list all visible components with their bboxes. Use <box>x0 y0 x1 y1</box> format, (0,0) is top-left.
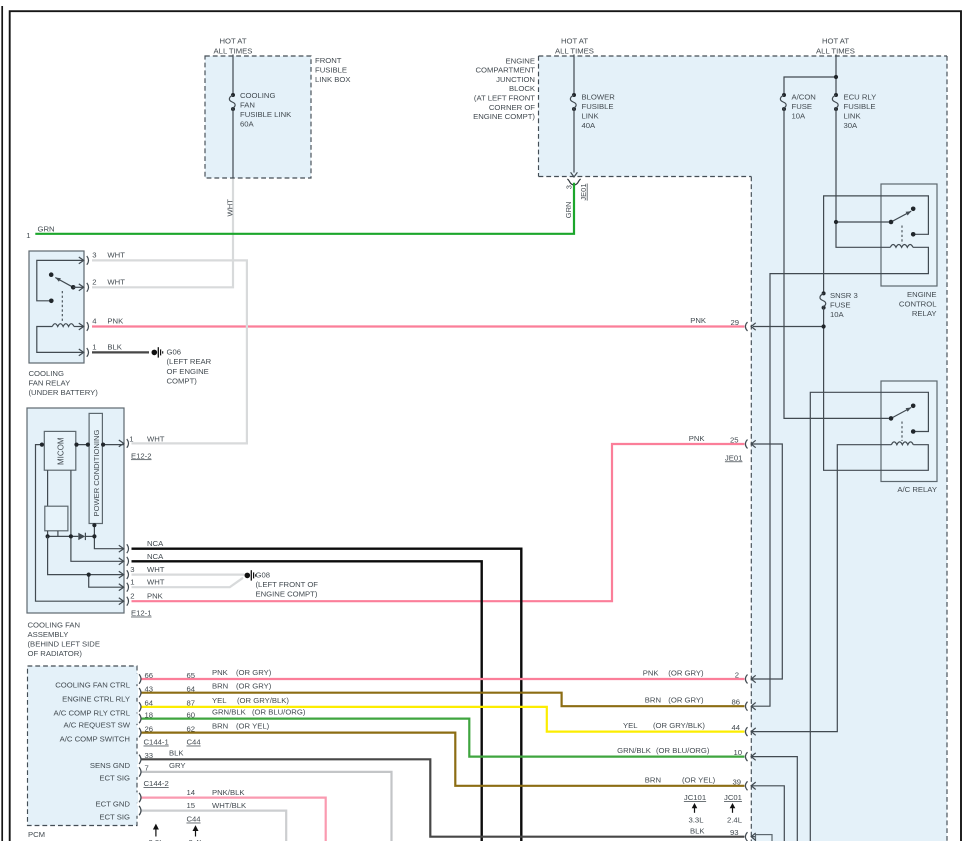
svg-text:COOLING FAN: COOLING FAN <box>28 621 81 630</box>
svg-text:25: 25 <box>730 436 739 445</box>
svg-text:WHT: WHT <box>107 278 125 287</box>
svg-text:ASSEMBLY: ASSEMBLY <box>28 630 69 639</box>
fan module box <box>45 506 68 531</box>
svg-text:OF RADIATOR): OF RADIATOR) <box>28 649 83 658</box>
svg-text:FUSIBLE LINK: FUSIBLE LINK <box>240 110 292 119</box>
svg-text:JC101: JC101 <box>684 793 706 802</box>
svg-text:HOT AT: HOT AT <box>822 37 849 46</box>
cooling fan relay coil leads <box>37 327 84 353</box>
svg-text:(OR GRY/BLK): (OR GRY/BLK) <box>237 696 289 705</box>
svg-text:BLK: BLK <box>690 827 705 836</box>
svg-text:PNK: PNK <box>690 316 707 325</box>
svg-text:JE01: JE01 <box>579 183 588 200</box>
ECR NC contact <box>911 232 916 237</box>
svg-text:A/CON: A/CON <box>792 93 816 102</box>
svg-text:3: 3 <box>130 565 134 574</box>
svg-text:LINK: LINK <box>844 112 862 121</box>
wire pin39 internal <box>751 786 784 841</box>
svg-text:FAN RELAY: FAN RELAY <box>29 379 71 388</box>
svg-text:65: 65 <box>187 671 196 680</box>
svg-text:LINK BOX: LINK BOX <box>315 75 350 84</box>
svg-text:BLK: BLK <box>169 748 184 757</box>
wire cooling fan fusible link lower (in box) <box>232 109 234 178</box>
svg-text:PNK/BLK: PNK/BLK <box>212 788 245 797</box>
svg-text:A/C RELAY: A/C RELAY <box>897 485 937 494</box>
junction block pin 25 <box>745 440 747 449</box>
svg-text:ENGINE COMPT): ENGINE COMPT) <box>473 112 535 121</box>
svg-text:62: 62 <box>187 724 196 733</box>
junction box bottom component <box>756 835 773 841</box>
svg-text:SENS GND: SENS GND <box>90 761 131 770</box>
svg-text:29: 29 <box>730 318 739 327</box>
svg-text:(UNDER BATTERY): (UNDER BATTERY) <box>29 388 99 397</box>
svg-text:7: 7 <box>145 764 149 773</box>
svg-text:COOLING: COOLING <box>240 91 275 100</box>
wire WHT/BLK ect sig <box>141 811 287 841</box>
fan assembly pin at y=601.2 <box>119 598 124 605</box>
svg-text:POWER CONDITIONING: POWER CONDITIONING <box>92 430 101 517</box>
svg-text:10A: 10A <box>830 310 845 319</box>
junction block pin 93 <box>745 832 747 841</box>
svg-text:BRN: BRN <box>645 775 661 784</box>
svg-text:FUSIBLE: FUSIBLE <box>582 102 614 111</box>
svg-text:43: 43 <box>145 685 154 694</box>
svg-text:87: 87 <box>187 699 196 708</box>
svg-text:93: 93 <box>730 828 739 837</box>
svg-text:WHT: WHT <box>147 565 165 574</box>
svg-text:ENGINE: ENGINE <box>907 290 936 299</box>
svg-text:E12-2: E12-2 <box>131 451 152 460</box>
page border outer line <box>1 6 3 841</box>
svg-text:CONTROL: CONTROL <box>899 300 937 309</box>
svg-text:OF ENGINE: OF ENGINE <box>167 367 209 376</box>
svg-text:GRY: GRY <box>169 761 186 770</box>
svg-text:3: 3 <box>565 185 574 189</box>
cooling fan relay pin at y=287.3 <box>79 284 84 291</box>
wire BLK relay pin1 to G06 <box>92 351 149 353</box>
wire NCA 2 <box>132 561 482 841</box>
svg-text:YEL: YEL <box>623 721 638 730</box>
node MICOM out <box>74 443 78 447</box>
ACR coil <box>891 442 913 445</box>
svg-text:RELAY: RELAY <box>912 309 937 318</box>
ECR NC loop wire <box>824 196 929 294</box>
svg-text:10A: 10A <box>792 112 807 121</box>
svg-text:A/C COMP RLY CTRL: A/C COMP RLY CTRL <box>54 709 131 718</box>
cooling fan fusible link 60A <box>231 93 235 97</box>
svg-text:15: 15 <box>187 801 196 810</box>
svg-text:HOT AT: HOT AT <box>219 37 246 46</box>
svg-text:COOLING: COOLING <box>29 369 64 378</box>
wire YEL a/c comp rly ctrl <box>141 707 745 732</box>
junction block pin 86 <box>745 702 747 711</box>
fan assembly pin at y=561.3 <box>119 558 124 565</box>
svg-text:GRN: GRN <box>38 224 55 233</box>
PCM box (fill) <box>28 666 138 826</box>
PCM pin at y=759.3 <box>135 754 138 764</box>
node power cond in <box>86 443 90 447</box>
svg-text:39: 39 <box>732 777 741 786</box>
svg-text:PNK: PNK <box>107 317 124 326</box>
svg-text:18: 18 <box>145 710 154 719</box>
cooling fan relay pin at y=326.5 <box>79 323 84 330</box>
svg-text:ENGINE: ENGINE <box>506 56 535 65</box>
svg-text:PNK: PNK <box>643 668 660 677</box>
junction block pin 44 <box>745 727 747 736</box>
svg-text:C44: C44 <box>187 738 202 747</box>
ACR mech link (dashed) <box>901 422 903 442</box>
svg-text:14: 14 <box>187 788 196 797</box>
svg-text:YEL: YEL <box>212 696 227 705</box>
ECR common <box>889 220 894 225</box>
ECR switch blade <box>891 211 911 222</box>
svg-text:NCA: NCA <box>147 552 164 561</box>
cooling fan relay switch blade <box>55 278 73 288</box>
wire NCA 1 <box>132 549 522 841</box>
A/CON fuse 10A <box>782 93 786 97</box>
node junction row mid <box>69 534 73 538</box>
connector JE01 cup <box>567 179 580 185</box>
MICOM bottom stub left <box>47 470 49 506</box>
power cond bottom wire / NCA1 wire <box>94 524 124 549</box>
engine control relay box <box>881 184 937 286</box>
wire BRN engine ctrl rly <box>141 693 745 707</box>
svg-text:FAN: FAN <box>240 101 255 110</box>
A/C relay box <box>881 381 937 482</box>
cooling fan relay box <box>29 251 84 363</box>
svg-text:(OR BLU/ORG): (OR BLU/ORG) <box>656 746 710 755</box>
svg-text:(BEHIND LEFT SIDE: (BEHIND LEFT SIDE <box>28 640 100 649</box>
fan assembly pin at y=587.2 <box>119 584 124 591</box>
junction row wire <box>48 535 79 537</box>
wire ECU link to ECR switch <box>836 109 889 222</box>
svg-text:1: 1 <box>26 231 30 240</box>
PCM pin at y=771.9 <box>135 767 138 777</box>
svg-text:WHT: WHT <box>147 435 165 444</box>
svg-text:JUNCTION: JUNCTION <box>496 75 535 84</box>
engine compartment junction block (fill) <box>539 56 948 841</box>
MICOM box <box>44 431 76 470</box>
ECU RLY fusible link 30A <box>834 93 838 97</box>
fan assembly pin at y=574.6 <box>119 571 124 578</box>
wire pin25 to pin2 internal <box>751 444 782 679</box>
svg-text:FUSE: FUSE <box>830 301 851 310</box>
svg-text:(OR GRY): (OR GRY) <box>236 668 272 677</box>
svg-text:30A: 30A <box>844 121 859 130</box>
node diode out <box>92 534 96 538</box>
junction block dashed border <box>539 55 948 57</box>
wire WHT fan pin1 to G08 <box>132 578 244 587</box>
svg-text:66: 66 <box>145 671 154 680</box>
WHT pins wire <box>48 536 124 574</box>
svg-text:4: 4 <box>92 317 97 326</box>
svg-text:33: 33 <box>145 751 154 760</box>
wire pin93 internal <box>751 836 756 838</box>
fan module stub a <box>47 531 49 537</box>
svg-text:64: 64 <box>187 685 196 694</box>
cooling fan relay common <box>71 285 76 290</box>
svg-text:G08: G08 <box>256 571 271 580</box>
junction block pin 10 <box>745 752 747 761</box>
wire battery feed to blower fusible link <box>573 55 575 96</box>
wire BLK sens gnd <box>141 759 745 836</box>
svg-text:(OR BLU/ORG): (OR BLU/ORG) <box>252 708 306 717</box>
svg-text:G06: G06 <box>167 347 182 356</box>
svg-text:60A: 60A <box>240 120 255 129</box>
svg-text:ALL TIMES: ALL TIMES <box>816 46 855 55</box>
svg-text:FRONT: FRONT <box>315 56 342 65</box>
ECR coil <box>890 245 913 248</box>
svg-text:(LEFT REAR: (LEFT REAR <box>167 357 212 366</box>
svg-text:E12-1: E12-1 <box>131 609 152 618</box>
WHT pin1 branch <box>89 575 124 588</box>
PCM connector arrow 2 <box>195 829 197 837</box>
ACR common <box>889 416 894 421</box>
cooling fan relay NO contact <box>49 272 54 277</box>
cooling fan relay mech link (dashed) <box>61 291 63 322</box>
ground G08 <box>245 573 251 579</box>
svg-text:1: 1 <box>129 435 133 444</box>
PCM pin at y=692.7 <box>135 688 138 698</box>
svg-text:2: 2 <box>92 278 96 287</box>
svg-text:WHT/BLK: WHT/BLK <box>212 801 247 810</box>
wire pin10 internal <box>751 757 797 841</box>
svg-text:WHT: WHT <box>107 251 125 260</box>
wire battery feed to cooling fan fusible link <box>232 55 234 96</box>
node power cond out <box>101 443 105 447</box>
svg-text:10: 10 <box>733 748 742 757</box>
svg-text:BRN: BRN <box>212 722 228 731</box>
svg-text:40A: 40A <box>582 121 597 130</box>
cooling fan relay pin3 internal wire <box>37 260 84 300</box>
wire PNK/BLK ect gnd <box>141 798 326 841</box>
svg-text:FUSIBLE: FUSIBLE <box>315 66 347 75</box>
PCM pin at y=797.6 <box>135 792 138 802</box>
wire battery feed to ECU RLY fusible link <box>835 55 837 96</box>
svg-text:PNK: PNK <box>147 592 164 601</box>
svg-text:BLOWER: BLOWER <box>582 93 616 102</box>
PCM pin at y=810.6 <box>135 805 138 815</box>
wire ECU link to ECR coil <box>836 222 890 247</box>
front fusible link box (fill) <box>205 56 311 178</box>
svg-text:JC01: JC01 <box>724 793 742 802</box>
wire BRN a/c comp switch <box>141 733 745 786</box>
svg-text:(OR YEL): (OR YEL) <box>682 775 716 784</box>
PCM pin at y=732.6 <box>135 727 138 737</box>
junction block pin 2 <box>745 675 747 684</box>
node rail <box>40 443 44 447</box>
ground G06 <box>152 350 158 356</box>
svg-text:BRN: BRN <box>212 682 228 691</box>
fan module stub b <box>57 531 59 537</box>
svg-text:PNK: PNK <box>689 434 706 443</box>
node pc bottom <box>92 523 96 527</box>
wire WHT fusible link to relay pin 2 <box>92 178 233 287</box>
fan assembly left rail wire <box>36 445 125 602</box>
svg-text:3: 3 <box>92 251 96 260</box>
PCM pin at y=706.9 <box>135 702 138 712</box>
svg-text:HOT AT: HOT AT <box>561 37 588 46</box>
fan assembly pin at y=443.4 <box>119 440 124 447</box>
node junction row left <box>46 534 50 538</box>
ACR switch blade <box>891 408 911 419</box>
diode D1 <box>78 533 85 540</box>
wire GRN from JE01 to left <box>35 183 574 234</box>
ACR NC contact <box>911 429 916 434</box>
node ECR feed junction <box>834 220 838 224</box>
svg-text:PCM: PCM <box>28 830 45 839</box>
svg-text:ECT SIG: ECT SIG <box>99 812 130 821</box>
wire GRN/BLK a/c request sw <box>141 719 745 757</box>
node WHT branch <box>87 573 91 577</box>
PCM connector arrow 1 <box>155 827 157 837</box>
wire blower fusible link to JE01 <box>573 109 575 173</box>
PCM pin at y=679 <box>135 674 138 684</box>
svg-text:C44: C44 <box>186 815 201 824</box>
svg-text:ALL TIMES: ALL TIMES <box>555 46 594 55</box>
MICOM output wire <box>76 444 124 446</box>
node battery branch junction <box>834 75 838 79</box>
svg-text:GRN/BLK: GRN/BLK <box>212 708 247 717</box>
cooling fan relay NC contact <box>49 299 54 304</box>
svg-text:ENGINE COMPT): ENGINE COMPT) <box>256 590 318 599</box>
ACR output loop wire <box>810 392 928 841</box>
svg-text:FUSE: FUSE <box>792 102 813 111</box>
svg-text:(OR GRY): (OR GRY) <box>668 668 704 677</box>
svg-text:(OR GRY): (OR GRY) <box>236 682 272 691</box>
wire ACR coil to pin 44 <box>751 445 891 732</box>
svg-text:1: 1 <box>92 343 96 352</box>
wire A/CON fuse to ACR switch <box>784 109 889 418</box>
svg-text:NCA: NCA <box>147 539 164 548</box>
svg-text:PNK: PNK <box>212 668 229 677</box>
svg-text:COOLING FAN CTRL: COOLING FAN CTRL <box>55 681 130 690</box>
svg-text:(LEFT FRONT OF: (LEFT FRONT OF <box>256 580 319 589</box>
MICOM bottom stub right / NCA2 wire <box>71 470 124 561</box>
svg-text:26: 26 <box>145 724 154 733</box>
ECR mech link (dashed) <box>901 226 903 245</box>
svg-text:(AT LEFT FRONT: (AT LEFT FRONT <box>474 94 535 103</box>
svg-text:CORNER OF: CORNER OF <box>489 103 535 112</box>
svg-text:A/C REQUEST SW: A/C REQUEST SW <box>64 720 131 729</box>
PCM pin at y=718.6 <box>135 713 138 723</box>
svg-text:3.3L: 3.3L <box>689 815 705 824</box>
svg-text:WHT: WHT <box>226 199 235 217</box>
wire PNK cooling fan relay pin4 to junction pin29 <box>92 325 744 327</box>
ECR NO contact <box>911 207 916 212</box>
svg-text:MICOM: MICOM <box>57 437 66 465</box>
JC01 arrow <box>732 807 734 813</box>
node SNSR3/pin29 junction <box>822 324 826 328</box>
svg-text:44: 44 <box>731 723 740 732</box>
junction block pin 39 <box>745 781 747 790</box>
svg-text:SNSR 3: SNSR 3 <box>830 291 858 300</box>
front fusible link box (dashed border) <box>205 56 311 178</box>
svg-text:GRN: GRN <box>564 202 573 219</box>
svg-text:A/C COMP SWITCH: A/C COMP SWITCH <box>60 734 130 743</box>
wire WHT fan pin3 to G08 <box>132 573 245 575</box>
svg-text:COMPT): COMPT) <box>167 377 198 386</box>
wire pin29 internal <box>753 326 824 328</box>
PCM dashed border <box>28 666 138 826</box>
svg-text:ALL TIMES: ALL TIMES <box>214 46 253 55</box>
ACR NO contact <box>911 404 916 409</box>
svg-text:64: 64 <box>145 699 154 708</box>
wire SNSR3 fuse to A/C relay coil <box>824 308 929 471</box>
wire PNK fan assembly pin2 to junction pin25 <box>132 444 745 601</box>
wire GRY ect sig <box>141 772 392 841</box>
connector JE01 arrow <box>571 172 578 177</box>
wire PNK cooling fan ctrl <box>141 678 745 680</box>
JC101 arrow <box>694 807 696 813</box>
svg-text:1: 1 <box>130 578 134 587</box>
cooling fan assembly box <box>27 408 124 613</box>
svg-text:GRN/BLK: GRN/BLK <box>617 746 652 755</box>
junction block pin 29 <box>745 322 747 331</box>
svg-text:(OR GRY): (OR GRY) <box>668 696 704 705</box>
svg-text:FUSIBLE: FUSIBLE <box>844 102 876 111</box>
svg-text:BLOCK: BLOCK <box>509 84 536 93</box>
svg-text:C144-1: C144-1 <box>144 738 169 747</box>
svg-text:WHT: WHT <box>147 578 165 587</box>
cooling fan relay pin at y=260.4 <box>79 257 84 264</box>
wire WHT relay pin3 to fan assembly E12-2 <box>92 260 247 443</box>
svg-text:ENGINE CTRL RLY: ENGINE CTRL RLY <box>62 694 130 703</box>
svg-text:86: 86 <box>731 698 740 707</box>
svg-text:2: 2 <box>130 592 134 601</box>
svg-text:COMPARTMENT: COMPARTMENT <box>475 66 535 75</box>
svg-text:60: 60 <box>187 710 196 719</box>
SNSR 3 fuse 10A <box>822 291 826 295</box>
svg-text:JE01: JE01 <box>725 453 743 462</box>
svg-text:BRN: BRN <box>645 696 661 705</box>
svg-text:2.4L: 2.4L <box>727 815 743 824</box>
svg-text:C144-2: C144-2 <box>144 779 169 788</box>
svg-text:(OR GRY/BLK): (OR GRY/BLK) <box>653 721 705 730</box>
svg-text:LINK: LINK <box>582 112 600 121</box>
svg-text:ECT SIG: ECT SIG <box>99 774 130 783</box>
blower fusible link 40A <box>572 93 576 97</box>
svg-text:(OR YEL): (OR YEL) <box>236 722 270 731</box>
wire branch to A/CON fuse <box>784 77 836 95</box>
fan assembly pin at y=548.7 <box>119 545 124 552</box>
cooling fan relay coil <box>52 324 74 327</box>
svg-text:ECT GND: ECT GND <box>96 799 131 808</box>
wire ECR coil return to pin 86 <box>751 247 928 706</box>
svg-text:BLK: BLK <box>107 343 122 352</box>
POWER CONDITIONING box <box>89 413 102 523</box>
svg-text:ECU RLY: ECU RLY <box>844 93 877 102</box>
svg-text:2: 2 <box>735 671 739 680</box>
cooling fan relay pin at y=352.4 <box>79 349 84 356</box>
